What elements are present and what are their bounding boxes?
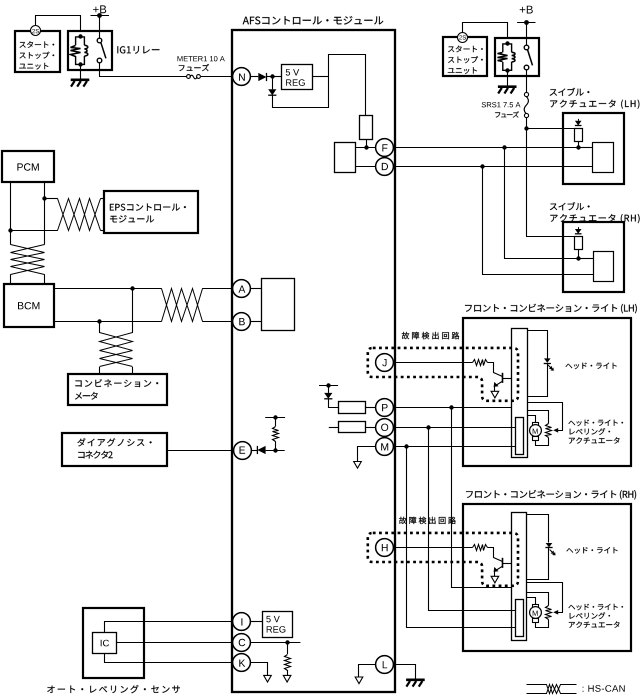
wire H to resistor [394, 547, 473, 549]
start-stop unit box right [443, 37, 487, 76]
wire tap to EPS pair bottom [11, 230, 58, 232]
wire tap to EPS pair top [45, 198, 58, 200]
label leveling actuator LH [569, 420, 624, 427]
wire E to diode [251, 450, 258, 452]
wire SRS fuse down [526, 118, 528, 128]
label auto leveling sensor [47, 685, 180, 693]
wire P to strip LH [394, 407, 512, 409]
wire sensor to I [105, 622, 234, 633]
IC block [93, 633, 117, 654]
label 5V REG [286, 69, 300, 76]
ground R7 [283, 675, 291, 682]
pin M [376, 438, 394, 456]
motor M1 LH [533, 423, 539, 426]
label swivel actuator RH [550, 202, 590, 210]
power +B label right [520, 6, 533, 14]
wire meter drop right [132, 289, 134, 333]
label EPS control module [110, 204, 186, 211]
power +B label [93, 5, 106, 13]
potentiometer RH [546, 606, 552, 620]
transistor Q2 [502, 558, 504, 568]
label fault detection circuit RH [399, 517, 456, 524]
wire coil to ground right [507, 72, 509, 86]
wire F branch to swivel RH [505, 148, 579, 259]
label AFS control module title [243, 16, 384, 25]
connector 2S circle right [458, 33, 468, 43]
wire pot to motor LH [536, 438, 549, 446]
wire B to block [251, 321, 262, 323]
wire EPS stub bottom [101, 230, 105, 232]
pin A [233, 280, 251, 298]
label IC [101, 640, 109, 647]
module diagnosis connector box [62, 433, 167, 466]
wire pair to pin A [202, 288, 233, 290]
pin D [376, 158, 394, 176]
start-stop unit box [15, 31, 60, 72]
label PCM [17, 163, 38, 170]
connector 2S circle [31, 26, 41, 36]
wire motor top RH [527, 598, 536, 605]
label leveling actuator RH [569, 604, 624, 611]
power +B node right [517, 22, 535, 24]
relay IG1 box [68, 31, 112, 70]
wire PCM CAN-H [44, 182, 46, 245]
front combination light RH box [463, 504, 631, 651]
wire pair to BCM left [10, 274, 12, 284]
wire D branch to swivel RH [483, 167, 594, 275]
wire D to swivel LH [394, 166, 593, 168]
label BCM [18, 302, 39, 309]
wire sensor to C [117, 642, 233, 644]
relay IG1 coil and switch [76, 37, 85, 45]
fault detect dashed box RH [368, 533, 518, 586]
diode D4 down [328, 386, 330, 393]
wire R6 to transistor Q2 base [488, 548, 503, 562]
regulator 5V REG2 box [263, 612, 293, 638]
label start-stop unit right [448, 46, 483, 53]
label front combination light RH [466, 490, 636, 500]
node P rail [319, 385, 338, 387]
wire pot to motor RH [536, 620, 549, 628]
wire R3 to transistor Q1 base [488, 363, 503, 377]
wire M to connector LH [394, 446, 516, 448]
wire O to connector LH [394, 427, 516, 429]
wire R1 to node F [366, 139, 368, 148]
wire block to D [356, 166, 376, 168]
fault detect dashed box LH [368, 348, 518, 401]
module auto leveling sensor box [83, 608, 144, 678]
wire sensor to K [105, 654, 234, 663]
motor M2 RH [533, 605, 539, 608]
label headlight RH [567, 547, 618, 554]
pin N [233, 68, 251, 86]
front combination light LH box [463, 318, 631, 466]
label fault detection circuit LH [402, 332, 460, 339]
pin L [376, 656, 394, 674]
swivel actuator LH box [563, 113, 624, 184]
wire 5V REG output [313, 76, 329, 78]
wire switch to SRS fuse [526, 70, 528, 93]
pin B [233, 313, 251, 331]
wire +B to relay switch [99, 16, 101, 39]
power +B node [91, 15, 110, 17]
transistor Q1 [502, 373, 504, 383]
wire diagnosis to E [167, 450, 234, 452]
regulator 5V REG box [282, 65, 313, 90]
fuse SRS1 7.5A [524, 92, 528, 96]
wire A to block [251, 288, 262, 290]
pin P [376, 399, 394, 417]
ground M [354, 462, 362, 469]
wire headlight loop LH [528, 331, 548, 359]
label combination meter [75, 379, 158, 387]
wire K to ground [251, 663, 268, 676]
wire R4 to P [365, 407, 376, 409]
pin O [376, 419, 394, 437]
wire D4 to R4 [329, 399, 339, 408]
motor block swivel LH [593, 143, 614, 173]
ground IG1 relay [71, 79, 90, 82]
diode D2 down [268, 89, 276, 95]
wire O drop to connector RH [429, 428, 516, 611]
label SRS1 fuse [482, 102, 521, 107]
pin K [233, 654, 251, 672]
node SRS junction [524, 126, 528, 130]
pin F [376, 139, 394, 157]
twisted pair BCM to module [162, 289, 203, 322]
wire meter drop left [99, 322, 101, 334]
ground L open [355, 677, 363, 684]
legend HS-CAN label [583, 685, 625, 692]
wire motor top LH [528, 416, 536, 423]
pin J [376, 354, 394, 372]
diode D1 [258, 73, 266, 81]
relay box right [495, 38, 539, 76]
ground Q2 emitter [491, 576, 499, 583]
wire to swivel RH diode [527, 129, 575, 237]
wire headlight loop RH [527, 515, 549, 543]
resistor R1 [360, 116, 373, 140]
wire coil to ground [80, 66, 82, 79]
resistor R3 [473, 360, 488, 366]
resistor swivel LH [575, 129, 583, 142]
label start-stop unit [20, 41, 55, 48]
node meter tap A [130, 286, 134, 290]
resistor R7 [287, 642, 289, 654]
wire pair to meter left [99, 367, 101, 374]
module EPS box [104, 191, 198, 233]
pin H [376, 539, 394, 557]
potentiometer LH [546, 424, 552, 438]
LED headlight LH [544, 358, 551, 362]
legend HS-CAN twisted pair [527, 685, 577, 694]
swivel actuator RH box [563, 222, 624, 292]
pin E [234, 442, 252, 460]
LED headlight RH [546, 543, 553, 547]
relay coil and switch right [503, 44, 512, 52]
wire N to diode [251, 76, 259, 78]
node CAN-L tap [8, 228, 12, 232]
module BCM box [4, 284, 54, 327]
pin C [233, 634, 251, 652]
twisted pair PCM-BCM [11, 245, 45, 275]
module combination meter box [68, 374, 167, 405]
wire node to motor block LH [578, 147, 593, 149]
label headlight LH [566, 363, 617, 370]
wire diode to 5V REG [267, 76, 282, 78]
ground Q1 emitter [491, 391, 499, 398]
pin I [233, 613, 251, 631]
resistor R4 [339, 402, 366, 414]
module PCM box [2, 151, 54, 182]
wire M to ground [358, 447, 376, 462]
wire strip to pot LH [528, 411, 549, 424]
wire resistor to node LH [578, 141, 580, 147]
twisted pair to EPS [58, 199, 101, 231]
wire relay switch to fuse [100, 63, 187, 77]
wire PCM CAN-L [10, 182, 12, 245]
node CAN-H tap [42, 196, 46, 200]
wire D2 to resistor R1 [273, 55, 366, 116]
wire pair to pin B [202, 321, 233, 323]
node P drop [449, 405, 453, 409]
wire pair to meter right [132, 367, 134, 374]
ground L chassis [406, 678, 425, 681]
label 5V REG2 [266, 616, 280, 623]
wire L to signal ground [359, 665, 376, 677]
diode swivel LH [578, 119, 580, 121]
connector block F/D [335, 143, 356, 173]
wire resistor to node RH [578, 250, 580, 259]
wire strip to pot RH [527, 593, 549, 606]
wire F to swivel LH [394, 147, 579, 149]
diode D3 left [257, 446, 265, 454]
wire BCM to pair B [54, 321, 162, 323]
wire wiper RH [527, 583, 563, 613]
label diagnosis connector 2 [77, 438, 151, 446]
diode swivel RH [578, 227, 580, 229]
resistor R5 [339, 422, 366, 433]
resistor R6 [473, 545, 488, 551]
node R2 top rail [265, 417, 285, 419]
wire J to resistor [394, 362, 473, 364]
fuse METER1 10A [187, 75, 191, 79]
wire pair to BCM right [44, 274, 46, 284]
wire block to F [356, 147, 376, 149]
label swivel actuator LH [550, 88, 590, 96]
wire P drop to strip RH [452, 408, 512, 588]
node meter tap B [97, 319, 101, 323]
wire node to diode D2 [272, 77, 274, 89]
node M drop [404, 444, 408, 448]
wire M drop to connector RH [407, 447, 516, 628]
label front combination light LH [465, 304, 637, 314]
module AFS control module box [232, 30, 395, 692]
wire C to node [251, 642, 301, 644]
label IG1 relay [117, 46, 159, 54]
node F branch [502, 145, 506, 149]
connector strip RH [512, 513, 527, 641]
wire diode to node E [266, 450, 285, 452]
twisted pair to meter [100, 333, 133, 367]
wire wiper LH [528, 403, 563, 431]
resistor R2 pullup [275, 441, 277, 450]
resistor swivel RH [575, 237, 583, 250]
wire 2S to relay coil right [463, 23, 508, 39]
connector block A/B [262, 279, 295, 331]
ground relay right [498, 85, 517, 88]
wire R5 stub [329, 427, 339, 429]
wire fuse to pin N [201, 76, 233, 78]
connector strip LH [512, 329, 528, 458]
label METER1 fuse [178, 56, 225, 61]
leveling connector LH [516, 418, 524, 455]
wire BCM to pair A [54, 288, 162, 290]
wire L to chassis ground [394, 665, 416, 680]
wire I to 5V REG2 [251, 621, 262, 623]
ground K [264, 675, 272, 682]
wire EPS stub top [101, 198, 105, 200]
motor block swivel RH [594, 252, 614, 282]
wire to swivel LH diode [526, 128, 574, 130]
wire node to motor block RH [578, 258, 593, 260]
wire +B to relay switch right [526, 23, 528, 46]
node O drop [426, 425, 430, 429]
leveling connector RH [516, 600, 524, 637]
wire R5 to O [365, 427, 376, 429]
node D branch [480, 164, 484, 168]
wire 2S to relay coil [36, 16, 81, 32]
